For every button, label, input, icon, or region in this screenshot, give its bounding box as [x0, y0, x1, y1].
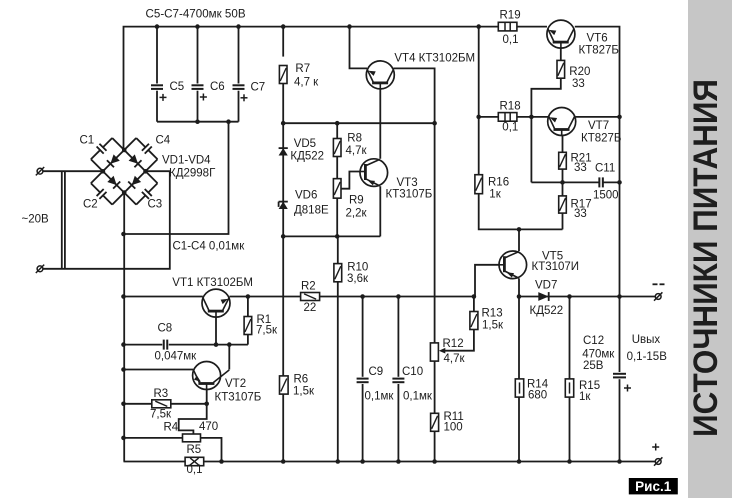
label R1: [256, 314, 278, 337]
label R13: [482, 308, 504, 332]
junction VT2 base: [204, 402, 209, 407]
wire VT6 base lead: [560, 44, 562, 60]
label C12: [582, 335, 615, 372]
label R14: [527, 379, 549, 402]
svg-text:25В: 25В: [583, 360, 604, 372]
svg-text:КТ3107И: КТ3107И: [532, 261, 580, 273]
junction top bus C7: [236, 24, 241, 29]
junction R18 line left: [476, 115, 481, 120]
wire transformer winding line 1: [61, 171, 63, 269]
resistor R10: [334, 264, 342, 282]
junction mid bus R13: [472, 294, 477, 299]
wire R21 bottom lead: [562, 169, 564, 182]
svg-text:C10: C10: [402, 366, 423, 378]
svg-text:VD6: VD6: [295, 189, 317, 201]
wire minus rail: bridge top node up and top bus to R19: [124, 27, 499, 150]
svg-text:VD7: VD7: [535, 280, 557, 292]
wire R17 leads: [562, 182, 564, 196]
svg-text:3,6к: 3,6к: [347, 273, 369, 285]
svg-text:4,7 к: 4,7 к: [294, 76, 319, 88]
resistor R9: [333, 179, 341, 199]
label R7: [294, 63, 319, 88]
junction mid bus R1: [246, 294, 251, 299]
capacitor C3 (bridge arm): [124, 171, 157, 204]
svg-text:VT4 КТ3102БМ: VT4 КТ3102БМ: [394, 53, 475, 65]
diode VD4 (bridge bottom-right): [124, 171, 145, 192]
transistor VT3: [360, 159, 388, 187]
resistor R5: [185, 457, 204, 465]
wire R7 top lead: [282, 27, 284, 57]
label VD6: [294, 189, 329, 216]
capacitor C6: [192, 85, 207, 100]
capacitor C8: [164, 340, 168, 350]
resistor R15: [565, 379, 573, 397]
label R18: [500, 101, 521, 134]
transistor VT2: [193, 362, 230, 390]
transistor VT7: [548, 108, 576, 136]
label C5: [170, 81, 185, 93]
zener diode VD6: [279, 202, 288, 209]
label R2: [301, 281, 316, 315]
label VT4: [394, 53, 475, 65]
wire C7 lower lead: [238, 91, 240, 122]
wire C6 leads: [197, 27, 199, 84]
svg-text:1к: 1к: [489, 189, 501, 201]
terminal input bottom: [36, 265, 44, 273]
wire R13 top lead: [473, 297, 475, 312]
svg-text:Uвых: Uвых: [632, 334, 661, 346]
wire VT7 collector to right vertical: [576, 116, 620, 118]
junction output bus C12: [617, 294, 622, 299]
transistor VT6: [547, 20, 575, 48]
svg-text:VT1 КТ3102БМ: VT1 КТ3102БМ: [172, 277, 253, 289]
junction C11 line R17: [560, 180, 565, 185]
label ~20V: [22, 214, 50, 226]
wire transformer top wire: [43, 170, 103, 172]
svg-text:470: 470: [199, 421, 218, 433]
wire VT2 collector riser: [228, 345, 230, 370]
svg-text:C9: C9: [369, 366, 384, 378]
svg-text:R3: R3: [154, 388, 169, 400]
svg-text:470мк: 470мк: [582, 349, 615, 361]
resistor R11: [431, 413, 439, 431]
junction bottom bus R4: [219, 459, 224, 464]
resistor R19: [498, 22, 517, 31]
svg-text:33: 33: [572, 78, 585, 90]
svg-text:~20В: ~20В: [22, 214, 50, 226]
junction output bus VT5: [517, 294, 522, 299]
wire R20 bottom path: [531, 78, 560, 182]
resistor R18: [498, 113, 517, 122]
label R15: [579, 380, 600, 403]
wire bridge plus riser: [124, 122, 229, 234]
junction mid bus C10: [396, 294, 401, 299]
svg-text:КТ3107Б: КТ3107Б: [386, 189, 433, 201]
svg-text:100: 100: [444, 422, 463, 434]
svg-text:КТ827Б: КТ827Б: [581, 133, 621, 145]
wire C7 leads: [238, 27, 240, 84]
terminal output plus: [654, 457, 662, 465]
capacitor C2 (bridge arm): [91, 171, 124, 204]
wire output minus bus: [519, 296, 655, 298]
label VD7: [530, 280, 564, 318]
junction bottom bus R15: [567, 459, 572, 464]
label R12: [443, 338, 466, 365]
wire R12 top lead: [434, 123, 436, 343]
junction top bus R7: [281, 24, 286, 29]
svg-text:VT3: VT3: [397, 177, 418, 189]
label C5-C7 values: [146, 8, 246, 21]
svg-text:0,1мк: 0,1мк: [403, 391, 433, 403]
label Uout: [627, 334, 668, 363]
wire R16 lead: [478, 117, 480, 175]
junction bus VT4 col: [432, 121, 437, 126]
resistor R12: [430, 343, 438, 361]
wire R6 vertical: [282, 236, 284, 461]
label VT2: [215, 378, 262, 404]
svg-text:7,5к: 7,5к: [256, 325, 278, 337]
junction R18 line right: [617, 115, 622, 120]
label R19: [500, 9, 521, 46]
junction top bus R19 col: [476, 24, 481, 29]
wire mid bus left: [124, 296, 203, 298]
junction bottom bus R11: [432, 459, 437, 464]
junction bus R8: [335, 121, 340, 126]
junction ref bus R9: [335, 234, 340, 239]
resistor R13: [470, 312, 478, 330]
wire VT2 emitter wire: [124, 369, 194, 371]
label C6: [210, 81, 225, 93]
terminal output minus: [654, 292, 662, 300]
wire bottom plus bus mid: [204, 461, 655, 463]
transistor VT5: [499, 251, 527, 279]
resistor R3: [152, 400, 171, 408]
svg-text:33: 33: [574, 162, 587, 174]
capacitor C12: [613, 374, 631, 392]
wire capacitor bottom bus: [157, 121, 239, 123]
wire VD5-VD6 vertical: [282, 123, 284, 236]
svg-text:1,5к: 1,5к: [293, 385, 315, 397]
resistor R1: [244, 317, 252, 335]
svg-text:0,1: 0,1: [502, 122, 518, 134]
label C1-C4 value: [173, 241, 246, 253]
trimmer R12 wiper arrow: [439, 348, 446, 354]
resistor R20: [557, 60, 565, 78]
svg-text:C6: C6: [210, 81, 225, 93]
svg-text:КД522: КД522: [530, 305, 564, 317]
wire C9 bottom lead: [362, 384, 364, 462]
capacitor C4 (bridge arm): [124, 138, 157, 171]
junction mid bus C9: [360, 294, 365, 299]
junction R3 left: [121, 402, 126, 407]
junction top bus VT4: [347, 24, 352, 29]
wire R11 bottom lead: [434, 431, 436, 461]
svg-text:0,1мк: 0,1мк: [365, 391, 395, 403]
svg-text:7,5к: 7,5к: [150, 409, 172, 421]
svg-text:C5-C7-4700мк 50В: C5-C7-4700мк 50В: [146, 8, 246, 21]
capacitor C10: [392, 379, 404, 383]
capacitor C7: [233, 85, 248, 101]
wire unregulated bus: [283, 122, 435, 124]
diode VD7: [538, 292, 548, 301]
junction cap bus riser: [226, 119, 231, 124]
svg-text:C3: C3: [148, 199, 163, 211]
wire R15 lead: [569, 297, 571, 379]
label C7: [251, 82, 266, 94]
wire R13 bottom lead: [445, 330, 474, 351]
junction output bus R15: [567, 294, 572, 299]
svg-text:R10: R10: [347, 262, 368, 274]
wire VT3 emitter lead: [379, 186, 381, 236]
wire R3 right lead: [171, 403, 207, 405]
label C4: [156, 135, 171, 147]
diode VD1 (bridge top-left): [103, 150, 124, 171]
resistor R6: [280, 376, 289, 394]
wire C8 line left: [124, 344, 163, 346]
junction R4 left: [121, 436, 126, 441]
junction bottom bus C12: [617, 459, 622, 464]
junction VT2 col: [227, 342, 232, 347]
svg-text:R6: R6: [294, 373, 309, 385]
resistor R8: [333, 139, 341, 157]
terminal input top: [36, 167, 44, 175]
resistor R4: [183, 434, 201, 442]
resistor R14: [515, 379, 523, 397]
junction mid bus left: [121, 294, 126, 299]
wire R15 bottom lead: [569, 396, 571, 462]
svg-text:C4: C4: [156, 135, 171, 147]
capacitor C9: [357, 379, 369, 383]
svg-text:R5: R5: [187, 444, 202, 456]
wire R3 line: [124, 403, 152, 405]
wire VT1 base lead: [215, 312, 217, 345]
wire VT7 base lead: [562, 132, 564, 153]
junction bridge top node: [122, 148, 127, 153]
svg-text:C1: C1: [80, 135, 95, 147]
wire R14 bottom lead: [518, 396, 520, 462]
svg-text:КД522: КД522: [290, 151, 324, 163]
svg-text:C7: C7: [251, 82, 266, 94]
label VT1: [172, 277, 253, 289]
label VD1-VD4: [162, 155, 216, 180]
wire C9 top lead: [362, 297, 364, 377]
svg-text:4,7к: 4,7к: [444, 353, 466, 365]
resistor R7: [279, 66, 287, 84]
svg-text:C1-C4 0,01мк: C1-C4 0,01мк: [173, 241, 246, 253]
svg-text:Рис.1: Рис.1: [635, 479, 672, 494]
svg-text:VT6: VT6: [587, 33, 608, 45]
svg-text:R20: R20: [569, 66, 590, 78]
wire R16 bottom lead: [479, 194, 563, 230]
svg-text:22: 22: [304, 302, 317, 314]
junction ref bus VD6: [281, 234, 286, 239]
svg-text:R18: R18: [500, 101, 521, 113]
svg-text:2,2к: 2,2к: [346, 207, 368, 219]
transistor VT1: [202, 289, 230, 317]
svg-text:C5: C5: [170, 81, 185, 93]
label C2: [83, 199, 98, 211]
svg-text:R12: R12: [443, 338, 464, 350]
wire R10 bottom lead: [337, 282, 339, 462]
wire R1 bottom lead: [247, 335, 249, 345]
wire transformer winding line 2: [64, 171, 66, 269]
svg-text:VT2: VT2: [225, 378, 246, 390]
svg-text:КТ827Б: КТ827Б: [579, 45, 619, 57]
wire R18 line: [479, 116, 499, 118]
svg-text:R19: R19: [500, 9, 521, 21]
junction bottom bus R14: [517, 459, 522, 464]
wire R9 bottom lead: [336, 198, 338, 236]
wire C5 lower lead: [156, 91, 158, 122]
wire C12 lead: [619, 297, 621, 373]
polarity mark plus: [652, 444, 659, 451]
label R16: [488, 177, 509, 201]
svg-text:1к: 1к: [579, 391, 591, 403]
svg-text:1,5к: 1,5к: [482, 319, 504, 331]
svg-text:R16: R16: [488, 177, 509, 189]
resistor R21: [559, 152, 567, 169]
label VD5: [290, 138, 324, 163]
svg-text:C12: C12: [583, 335, 604, 347]
wire VT5 base wire: [475, 265, 504, 297]
svg-text:VD1-VD4: VD1-VD4: [162, 155, 211, 167]
label C9: [365, 366, 395, 403]
label C11: [593, 163, 619, 202]
wire C10 top lead: [397, 297, 399, 377]
junction bottom bus C10: [396, 459, 401, 464]
junction top bus C5: [155, 24, 160, 29]
wire R7 bottom lead: [282, 83, 284, 123]
label VT7: [581, 120, 621, 145]
svg-text:Д818Е: Д818Е: [294, 204, 329, 216]
svg-text:33: 33: [574, 208, 587, 220]
figure tag box: [629, 478, 678, 494]
wire VT6 collector to right-side vertical: [575, 27, 620, 117]
wire C10 bottom lead: [397, 384, 399, 462]
label R9: [346, 195, 368, 220]
junction C11 line right: [617, 180, 622, 185]
capacitor C11: [599, 177, 603, 187]
svg-text:C11: C11: [595, 163, 615, 175]
diode VD3 (bridge bottom-left): [103, 171, 124, 192]
wire right vertical upper: [619, 117, 621, 297]
svg-text:680: 680: [528, 390, 547, 402]
junction plus riser: [121, 232, 126, 237]
label R5: [187, 444, 203, 476]
wire VT4 emitter wire: [350, 27, 368, 69]
wire R19 column: [478, 27, 480, 117]
label VT5: [532, 251, 580, 274]
sidebar band: [688, 0, 732, 498]
wire VT2 base lead: [179, 386, 207, 434]
wire R8-R9 junction: [336, 157, 338, 179]
svg-text:VT7: VT7: [588, 120, 609, 132]
wire R14 lead: [518, 297, 520, 379]
wire C11 line left: [531, 181, 599, 183]
svg-text:VD5: VD5: [294, 138, 316, 150]
transistor VT4: [366, 61, 394, 89]
label VT3: [386, 177, 433, 201]
junction bottom bus R6: [281, 459, 286, 464]
svg-text:R9: R9: [349, 195, 364, 207]
svg-text:C2: C2: [83, 199, 98, 211]
wire R12-R11 segment: [434, 361, 436, 413]
wire top bus from R19 to VT6: [517, 26, 547, 28]
svg-text:КТ3107Б: КТ3107Б: [215, 392, 262, 404]
wire VT4 base to VT3 collector: [379, 85, 381, 159]
label R17: [571, 199, 592, 221]
wire bottom plus bus: [124, 461, 186, 463]
svg-text:0,1: 0,1: [503, 34, 519, 46]
svg-text:КД2998Г: КД2998Г: [169, 168, 216, 180]
svg-text:R7: R7: [295, 63, 310, 75]
resistor R16: [475, 175, 483, 194]
wire R4 left lead: [124, 437, 183, 439]
junction bottom bus R10: [336, 459, 341, 464]
wire R18 to VT7: [517, 116, 548, 118]
label C1: [80, 135, 95, 147]
wire R8 top lead: [336, 123, 338, 138]
label R20: [569, 66, 590, 90]
label C3: [148, 199, 163, 211]
svg-text:4,7к: 4,7к: [346, 145, 368, 157]
svg-text:0,047мк: 0,047мк: [155, 351, 198, 363]
junction C8 line: [121, 342, 126, 347]
junction VT5 collector line: [517, 227, 522, 232]
wire C8 line right: [169, 344, 248, 346]
wire R4 right lead: [201, 438, 222, 462]
wire bridge plus column: [123, 193, 125, 462]
label C10: [402, 366, 433, 403]
wire R1 top lead: [247, 297, 249, 317]
svg-text:0,1-15В: 0,1-15В: [627, 351, 668, 363]
wire mid bus right of VT1: [230, 296, 474, 298]
junction R18 line R20: [529, 115, 534, 120]
svg-text:R13: R13: [482, 308, 503, 320]
wire R17 bottom lead: [562, 213, 564, 229]
label R3: [150, 388, 172, 421]
junction bottom bus C9: [360, 459, 365, 464]
wire VT4 collector wire: [393, 68, 434, 123]
resistor R17: [559, 196, 567, 213]
polarity mark minus: [653, 283, 665, 285]
label R8: [346, 133, 368, 158]
junction VT2 emitter: [121, 367, 126, 372]
diode VD5: [279, 148, 288, 155]
svg-text:R4: R4: [164, 422, 179, 434]
wire C11 line right: [603, 181, 620, 183]
junction bridge bottom node: [122, 190, 127, 195]
junction top bus C6: [195, 24, 200, 29]
label R21: [571, 153, 592, 175]
svg-text:0,1: 0,1: [187, 464, 203, 476]
label R10: [347, 262, 369, 285]
svg-text:ИСТОЧНИКИ ПИТАНИЯ: ИСТОЧНИКИ ПИТАНИЯ: [687, 79, 725, 437]
junction VT1 base: [214, 342, 219, 347]
resistor R2: [301, 293, 320, 301]
diode VD2 (bridge top-right): [124, 150, 145, 171]
label R4: [164, 421, 219, 434]
wire VT5 collector lead: [518, 229, 520, 251]
wire reference bus: [283, 235, 380, 237]
wire C6 lower lead: [197, 91, 199, 122]
svg-text:1500: 1500: [593, 190, 619, 202]
label R6: [293, 373, 315, 397]
junction bus R7: [281, 121, 286, 126]
wire C5 leads: [156, 27, 158, 84]
svg-text:R8: R8: [347, 133, 362, 145]
wire transformer bottom wire: [43, 171, 170, 269]
